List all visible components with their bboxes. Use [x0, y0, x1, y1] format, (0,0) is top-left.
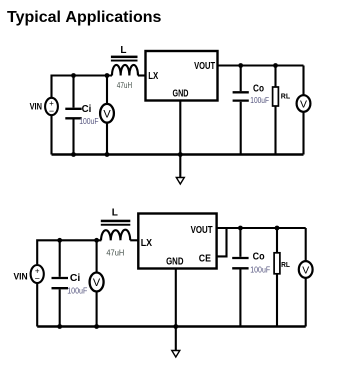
- capacitor Ci (bottom circuit): [52, 278, 69, 288]
- wire: output voltmeter bottom vertical (bottom circuit): [305, 278, 307, 327]
- svg-text:100uF: 100uF: [250, 265, 270, 275]
- svg-text:47uH: 47uH: [106, 247, 124, 257]
- resistor RL (top circuit): [273, 87, 279, 106]
- svg-text:Co: Co: [253, 252, 265, 263]
- capacitor Ci (top circuit): [65, 109, 81, 119]
- junction: top rail / voltmeter and inductor: [105, 73, 110, 78]
- wire: bottom rail (top circuit): [52, 153, 304, 155]
- resistor RL (bottom circuit): [274, 253, 280, 274]
- voltmeter V at input (bottom circuit): [90, 273, 104, 292]
- junction: top rail / Ci (bottom circuit): [57, 238, 62, 243]
- junction: top rail / voltmeter and inductor (bottom circuit): [94, 238, 99, 243]
- wire: inductor to LX pin: [138, 74, 146, 76]
- wire: RL bottom vertical (top circuit): [274, 106, 276, 155]
- voltmeter V at input (top circuit): [100, 104, 114, 123]
- inductor L1 core bars (top circuit): [111, 56, 138, 62]
- svg-text:V: V: [103, 108, 111, 120]
- svg-text:Co: Co: [253, 84, 264, 95]
- wire: VIN bottom vertical: [50, 115, 52, 154]
- wire: top rail VIN to inductor (bottom circuit): [37, 240, 101, 264]
- junction: bottom rail / input voltmeter (bottom circuit): [94, 324, 99, 329]
- voltmeter V at output (bottom circuit): [299, 261, 313, 278]
- svg-text:47uH: 47uH: [117, 80, 132, 90]
- wire: input voltmeter bottom vertical: [106, 123, 108, 155]
- voltmeter V at output (top circuit): [297, 95, 311, 112]
- wire: Ci top vertical (bottom circuit): [59, 240, 61, 276]
- inductor L2 winding (bottom circuit): [101, 230, 130, 241]
- svg-text:100uF: 100uF: [79, 116, 98, 126]
- op IC U1 (top circuit): [146, 51, 218, 101]
- svg-text:GND: GND: [166, 256, 183, 267]
- wire: input voltmeter top vertical (bottom circuit): [96, 240, 98, 272]
- op IC U2 (bottom circuit): [138, 214, 216, 269]
- wire: top rail VIN to inductor: [52, 76, 113, 99]
- wire: output voltmeter top vertical (bottom circuit): [305, 228, 307, 261]
- wire: inductor to LX pin (bottom circuit): [130, 239, 138, 241]
- svg-text:VOUT: VOUT: [194, 61, 215, 72]
- svg-text:Ci: Ci: [70, 273, 81, 284]
- wire: VOUT output rail (bottom circuit): [217, 227, 306, 229]
- wire: output voltmeter bottom vertical (top circuit): [302, 112, 304, 155]
- wire: RL top vertical (top circuit): [274, 66, 276, 88]
- svg-text:RL: RL: [281, 260, 290, 269]
- wire: bottom rail (bottom circuit): [37, 325, 306, 327]
- svg-text:LX: LX: [141, 238, 153, 249]
- capacitor Co (bottom circuit): [232, 258, 248, 268]
- junction: top rail / Ci: [71, 73, 76, 78]
- svg-text:Ci: Ci: [82, 104, 92, 115]
- svg-text:VIN: VIN: [30, 102, 42, 112]
- source VIN (top circuit): [45, 98, 58, 116]
- wire: Ci bottom vertical: [72, 120, 74, 155]
- svg-text:L: L: [120, 45, 126, 56]
- junction: VOUT rail / Co: [238, 63, 243, 68]
- title: Typical Applications: [7, 8, 161, 28]
- wire: GND pin vertical (top circuit): [179, 101, 181, 155]
- junction: bottom rail / GND: [178, 152, 183, 157]
- ground symbol (top circuit): [176, 155, 184, 185]
- svg-text:−: −: [49, 106, 54, 116]
- capacitor Co (top circuit): [233, 92, 249, 100]
- svg-text:V: V: [93, 277, 101, 289]
- svg-text:VOUT: VOUT: [191, 225, 213, 236]
- svg-text:V: V: [300, 98, 307, 110]
- wire: output voltmeter top vertical (top circuit): [302, 66, 304, 96]
- junction: VOUT rail / RL: [273, 63, 278, 68]
- svg-text:V: V: [302, 264, 309, 276]
- wire: Co bottom vertical (bottom circuit): [239, 270, 241, 327]
- inductor L2 core bars (bottom circuit): [101, 220, 131, 226]
- wire: Co bottom vertical (top circuit): [240, 102, 242, 155]
- junction: VOUT rail / RL (bottom circuit): [275, 226, 280, 231]
- junction: bottom rail / Ci: [71, 152, 76, 157]
- svg-text:100uF: 100uF: [67, 286, 87, 296]
- wire: Co top vertical (bottom circuit): [239, 228, 241, 257]
- ground symbol (bottom circuit): [172, 327, 180, 358]
- svg-text:100uF: 100uF: [250, 95, 269, 105]
- wire: Ci bottom vertical (bottom circuit): [59, 289, 61, 326]
- svg-text:VIN: VIN: [14, 271, 28, 281]
- source VIN (bottom circuit): [31, 265, 44, 284]
- wire: CE feedback loop (bottom circuit): [217, 228, 227, 256]
- svg-text:−: −: [35, 274, 40, 284]
- svg-text:CE: CE: [199, 253, 211, 264]
- junction: bottom rail / input voltmeter: [105, 152, 110, 157]
- wire: GND pin vertical (bottom circuit): [175, 269, 177, 327]
- svg-text:LX: LX: [148, 71, 158, 82]
- wire: RL bottom vertical (bottom circuit): [276, 274, 278, 327]
- wire: Ci top vertical: [72, 76, 74, 108]
- junction: bottom rail / GND (bottom circuit): [173, 324, 178, 329]
- svg-text:RL: RL: [281, 92, 291, 101]
- svg-text:L: L: [112, 208, 118, 219]
- svg-text:GND: GND: [173, 89, 189, 100]
- junction: VOUT rail / Co (bottom circuit): [238, 226, 243, 231]
- wire: RL top vertical (bottom circuit): [276, 228, 278, 253]
- wire: Co top vertical (top circuit): [240, 66, 242, 92]
- wire: VOUT output rail (top circuit): [218, 64, 304, 66]
- wire: VIN bottom vertical (bottom circuit): [36, 284, 38, 327]
- inductor L1 winding (top circuit): [112, 65, 138, 76]
- junction: bottom rail / Ci (bottom circuit): [57, 324, 62, 329]
- wire: input voltmeter top vertical: [106, 76, 108, 105]
- wire: input voltmeter bottom vertical (bottom circuit): [96, 292, 98, 327]
